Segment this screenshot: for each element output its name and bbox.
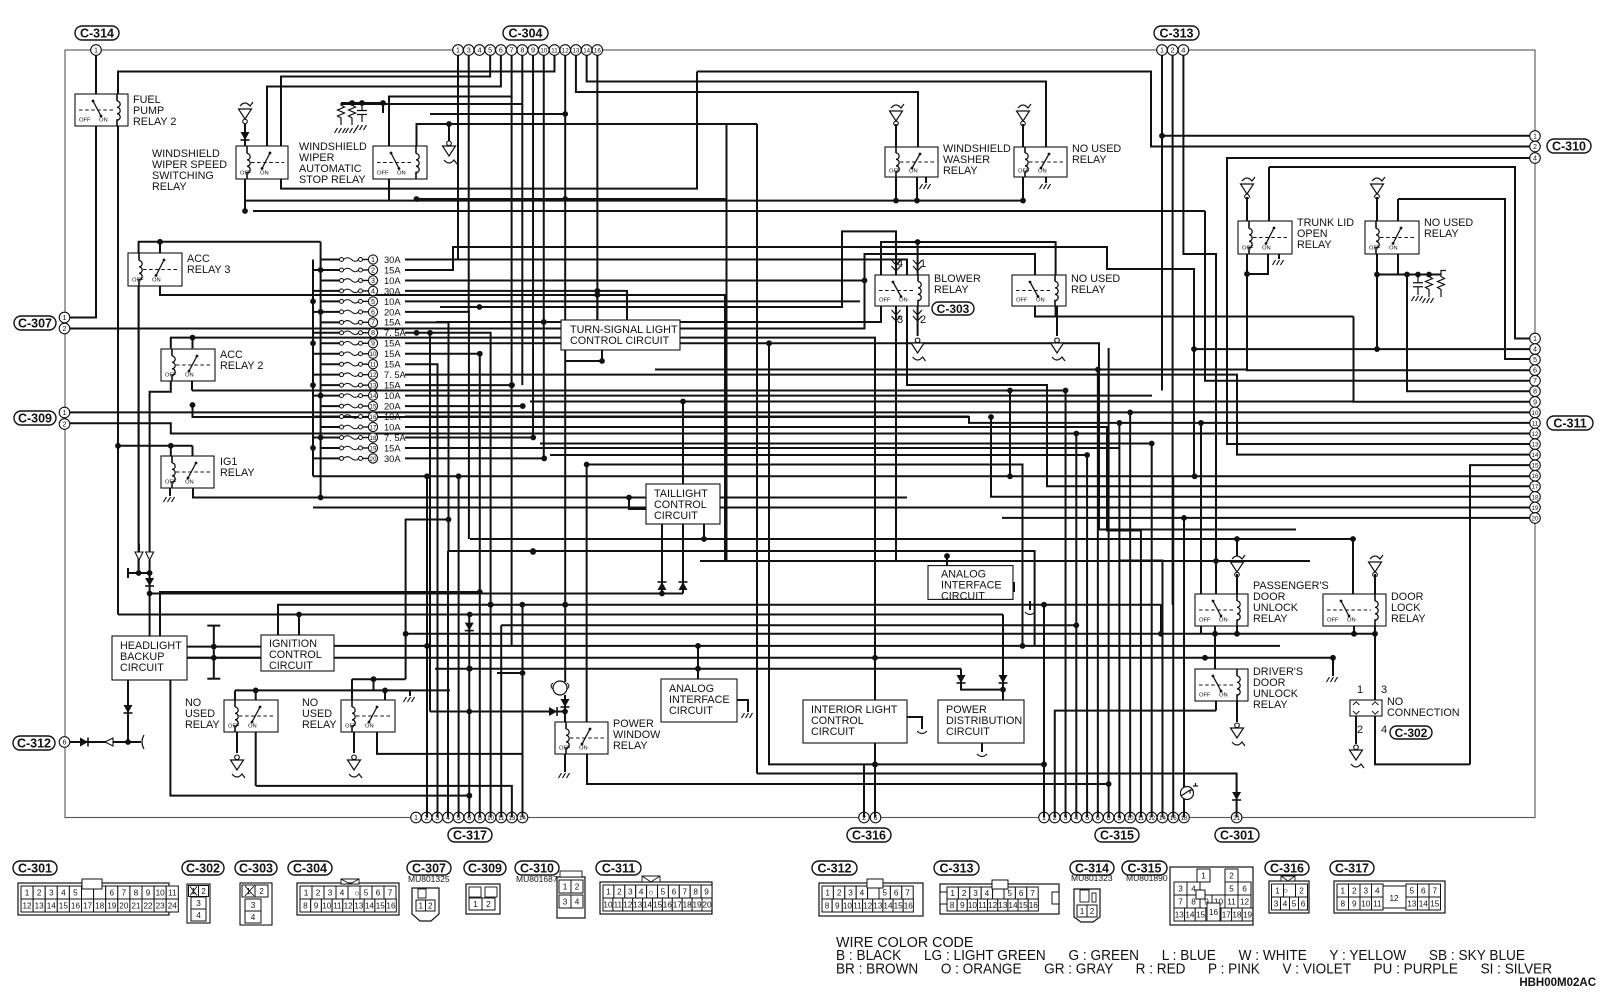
fuse bank 1-20 [340, 258, 344, 262]
svg-text:20A: 20A [384, 401, 401, 411]
wire C-311 pin13 link [1227, 443, 1530, 445]
relay ACC relay 3 [128, 253, 182, 286]
svg-text:C-310: C-310 [1552, 139, 1586, 153]
svg-text:3: 3 [467, 45, 471, 54]
fuse right joints [363, 259, 369, 261]
svg-text:2: 2 [486, 900, 491, 909]
svg-text:RELAY: RELAY [1072, 154, 1107, 166]
wire x430 from row8 [429, 333, 431, 712]
riser C-315 pin8 [1108, 348, 1110, 818]
wire x1194 down to rail [1193, 349, 1195, 476]
connector C-314 label [75, 26, 119, 40]
svg-text:C-302: C-302 [1395, 726, 1428, 740]
connector C-311 pins 1-20 [1530, 333, 1541, 344]
svg-text:13: 13 [1175, 910, 1185, 919]
svg-text:1: 1 [1201, 871, 1206, 880]
wire C-304 pin6 to wiper speed box [267, 55, 501, 146]
ground above washer relay [891, 104, 904, 108]
wire x769 vertical to y764 [769, 343, 1044, 764]
wire y540 bus [470, 538, 1353, 540]
svg-text:11: 11 [551, 47, 558, 54]
wire no-used2 switch bottom [377, 732, 523, 754]
svg-text:C-312: C-312 [817, 861, 851, 875]
riser C-317 pin13 [256, 786, 512, 818]
svg-text:RELAY: RELAY [613, 740, 648, 752]
connector C-314 pin 1 [91, 45, 102, 56]
svg-text:8: 8 [1340, 899, 1345, 908]
svg-text:2: 2 [617, 887, 622, 896]
svg-text:10A: 10A [384, 412, 401, 422]
svg-text:5: 5 [364, 888, 369, 897]
wire no-used mid switch down [1035, 306, 1354, 317]
svg-text:15: 15 [1019, 901, 1029, 910]
svg-text:6: 6 [371, 307, 375, 316]
svg-text:1: 1 [304, 888, 309, 897]
svg-text:15: 15 [59, 901, 69, 910]
fuse bottom rail to C-311 pin16 [313, 475, 1530, 477]
svg-text:9: 9 [704, 887, 709, 896]
bus y561 upper [700, 560, 1310, 562]
tri arrow x150 [146, 552, 154, 560]
svg-text:7: 7 [1432, 886, 1437, 895]
relay blower [875, 275, 929, 306]
fuse4 out [405, 291, 627, 320]
svg-text:3: 3 [1381, 684, 1387, 696]
wire stop relay coil top bus [417, 124, 758, 146]
wire power dist gnd [981, 743, 983, 752]
svg-text:5: 5 [73, 888, 78, 897]
svg-text:3: 3 [1178, 884, 1183, 893]
wire fuel relay coil down long [117, 126, 119, 615]
wire no-used2 aux stub [373, 679, 375, 690]
wire C-311 pin20 line [1002, 517, 1530, 519]
wire under wiper speed relay [281, 72, 697, 189]
svg-text:4: 4 [1375, 886, 1380, 895]
svg-text:19: 19 [107, 901, 117, 910]
connector C-313 pins 1 2 4 [1157, 45, 1168, 56]
svg-text:2: 2 [1299, 886, 1304, 895]
svg-text:8: 8 [520, 45, 524, 54]
svg-text:15A: 15A [384, 318, 401, 328]
wire acc3 switch top [159, 242, 161, 253]
svg-text:ON: ON [909, 169, 918, 175]
wire C-313 pin2 down [1172, 55, 1174, 604]
svg-text:14: 14 [643, 900, 653, 909]
pinout C-311 [596, 861, 641, 875]
svg-text:RELAY: RELAY [1253, 699, 1288, 711]
ground above no-used relay [1018, 104, 1031, 108]
svg-text:7: 7 [388, 888, 393, 897]
connector C-301 label [1215, 828, 1259, 842]
svg-text:6: 6 [1242, 884, 1247, 893]
svg-text:6: 6 [1019, 889, 1024, 898]
svg-text:C-304: C-304 [293, 861, 327, 875]
wire headlight bottom diode [127, 680, 129, 742]
svg-text:13: 13 [873, 901, 883, 910]
svg-text:2: 2 [428, 901, 433, 910]
fuse5 out [405, 300, 860, 302]
pinout C-301 [13, 861, 57, 875]
svg-text:16: 16 [594, 47, 601, 54]
svg-text:8: 8 [1533, 387, 1537, 396]
wire C-304 pin5 to wiper speed switch [281, 55, 490, 146]
riser C-315 pin2 [1055, 711, 1216, 818]
svg-text:1: 1 [418, 901, 423, 910]
svg-text:STOP RELAY: STOP RELAY [299, 174, 366, 186]
wire pass coil bottom [1236, 626, 1238, 634]
riser C-315 pin12 [1151, 444, 1153, 818]
svg-text:9: 9 [371, 339, 375, 348]
svg-text:C-315: C-315 [1100, 828, 1134, 842]
svg-text:4: 4 [196, 911, 201, 920]
wire power dist diodes [961, 669, 1003, 690]
wire C-311 pin15 line [1470, 465, 1530, 764]
svg-text:C-317: C-317 [1335, 861, 1369, 875]
svg-text:1: 1 [1533, 131, 1537, 140]
svg-text:C-301: C-301 [18, 861, 52, 875]
wire ig1 feeds top [118, 445, 193, 447]
svg-text:4: 4 [1283, 899, 1288, 908]
bus y604 long [278, 605, 1161, 636]
wire trunk relay feed [1268, 167, 1270, 221]
svg-text:RELAY: RELAY [185, 719, 220, 731]
wire pw coil gnd [564, 754, 566, 772]
svg-text:17: 17 [1222, 910, 1232, 919]
svg-text:4: 4 [1181, 45, 1185, 54]
svg-text:2: 2 [1352, 886, 1357, 895]
pinout C-310 [515, 861, 559, 875]
svg-text:19: 19 [1243, 910, 1253, 919]
wire x757 vertical to y774 [756, 124, 758, 774]
svg-text:ON: ON [579, 746, 588, 752]
wire y774 to C-301 pin21 [757, 774, 1237, 818]
svg-text:13: 13 [354, 901, 364, 910]
svg-text:2: 2 [63, 324, 67, 333]
svg-text:RELAY: RELAY [1297, 239, 1332, 251]
wire C-310 pin4 line [1227, 158, 1530, 444]
svg-text:16: 16 [1209, 908, 1219, 917]
relay windshield wiper speed switching [236, 146, 288, 179]
wire interior bottom [874, 743, 876, 764]
wire driver switch bottom [1215, 701, 1217, 711]
svg-text:11: 11 [168, 888, 177, 897]
wire turn-signal bottom tap [565, 350, 602, 361]
connector C-302 label [1390, 726, 1432, 739]
wire driver relay coil gnd [1236, 701, 1238, 722]
svg-text:CIRCUIT: CIRCUIT [669, 705, 713, 717]
connector C-304 label [503, 26, 548, 40]
svg-text:2: 2 [371, 265, 375, 274]
wire y114 stub [430, 113, 565, 115]
wire C-313 pin1 down [1161, 55, 1163, 390]
fuse18 out [405, 436, 533, 438]
svg-text:5: 5 [488, 45, 492, 54]
relay passenger door unlock [1195, 594, 1248, 626]
svg-text:8: 8 [134, 888, 139, 897]
ground above door lock coil [1370, 555, 1383, 559]
svg-text:11: 11 [370, 362, 377, 369]
fuse13 out [405, 384, 512, 386]
fuse12 out to C-311 pin14 [405, 375, 1530, 455]
svg-text:RELAY: RELAY [302, 719, 337, 731]
box headlight backup circuit [112, 636, 187, 680]
fuse8 out [405, 333, 491, 818]
svg-text:20: 20 [370, 456, 377, 463]
svg-text:13: 13 [998, 901, 1008, 910]
svg-text:ON: ON [1219, 693, 1228, 699]
connector C-310 pins 1 2 4 [1530, 131, 1541, 142]
svg-text:14: 14 [883, 901, 893, 910]
relay driver door unlock [1195, 669, 1248, 701]
wire x139 upper [138, 286, 140, 544]
connector C-301 pin 21 [1231, 812, 1242, 823]
svg-text:OFF: OFF [1016, 298, 1028, 304]
riser C-315 pin6 [1097, 370, 1099, 818]
svg-text:2: 2 [837, 888, 842, 897]
wire y199 to C-311 pin5 [1398, 199, 1530, 359]
svg-text:6: 6 [109, 888, 114, 897]
svg-text:RELAY: RELAY [1071, 284, 1106, 296]
pinout C-313 [934, 861, 979, 875]
svg-text:5: 5 [1292, 899, 1297, 908]
svg-text:2: 2 [575, 882, 580, 891]
svg-text:1: 1 [1275, 886, 1280, 895]
svg-text:20: 20 [1532, 515, 1539, 522]
pinout C-314 [1070, 861, 1114, 875]
wire x586 down to pw switch [586, 465, 588, 723]
svg-text:1: 1 [414, 813, 418, 822]
cap resistor group right [1413, 275, 1423, 296]
connector C-309 pins 1 2 [59, 407, 70, 418]
svg-text:10: 10 [1361, 899, 1371, 908]
wire C-304 pin11 to fuel relay coil [118, 55, 554, 94]
svg-text:10: 10 [370, 351, 377, 358]
svg-text:OFF: OFF [165, 480, 177, 486]
relay fuel pump relay 2 [75, 94, 128, 126]
svg-text:15: 15 [370, 403, 377, 410]
svg-text:11: 11 [1373, 899, 1382, 908]
svg-text:8: 8 [303, 901, 308, 910]
svg-text:1: 1 [456, 45, 460, 54]
wire x150 to headlight box [149, 594, 151, 636]
svg-text:MU801323: MU801323 [1071, 873, 1113, 883]
wire C-315 pin1 riser [1043, 605, 1045, 818]
svg-text:1: 1 [1080, 907, 1085, 916]
svg-text:OFF: OFF [1369, 246, 1381, 252]
bus y443 mid [540, 443, 1152, 445]
svg-text:C-313: C-313 [939, 861, 973, 875]
svg-text:C-316: C-316 [1270, 861, 1304, 875]
svg-text:10A: 10A [384, 391, 401, 401]
svg-text:15: 15 [376, 901, 386, 910]
svg-text:10A: 10A [384, 297, 401, 307]
svg-text:8: 8 [693, 887, 698, 896]
svg-text:C-316: C-316 [852, 828, 886, 842]
wire y673 left [497, 672, 523, 674]
wire pin12 C-304 down [564, 55, 566, 682]
pinout C-304 [288, 861, 332, 875]
svg-text:7. 5A: 7. 5A [384, 433, 407, 443]
wire blower pin4 feed stepA [440, 231, 896, 307]
svg-text:3: 3 [371, 276, 375, 285]
wire no-used1 coil stub [234, 690, 236, 700]
svg-text:19: 19 [692, 900, 702, 909]
wire pin8 C-304 down [521, 104, 523, 385]
wire blower pin3 down [895, 306, 897, 561]
wire no-used1 switch bottom [255, 732, 257, 786]
svg-text:16: 16 [370, 414, 377, 421]
wire acc pair arrows [138, 560, 140, 573]
wire y316 to C-311 pin9 [1354, 317, 1530, 402]
gnd hatch right of no-used2 [404, 697, 415, 702]
riser C-315 pin9 [1118, 423, 1120, 818]
riser C-317 pin4 [447, 551, 449, 818]
relay door lock [1323, 594, 1386, 626]
riser C-317 pin6 [468, 615, 470, 818]
svg-text:3: 3 [848, 888, 853, 897]
pinout C-302 [182, 861, 224, 875]
svg-text:17: 17 [1532, 484, 1539, 491]
ground above no-used right coil [1372, 177, 1385, 181]
svg-text:ON: ON [365, 724, 374, 730]
box interior light control circuit [803, 700, 907, 743]
fuse1 out to C-311 pin17 [405, 260, 1530, 487]
wire no-used feeds y679 [352, 678, 406, 680]
svg-text:12: 12 [988, 901, 998, 910]
svg-text:6: 6 [1301, 899, 1306, 908]
svg-text:2: 2 [316, 888, 321, 897]
svg-text:11: 11 [853, 901, 862, 910]
fuse20 out [405, 457, 544, 459]
svg-text:14: 14 [1419, 899, 1429, 908]
wire no-used2 gnd [353, 732, 355, 753]
svg-text:CONTROL CIRCUIT: CONTROL CIRCUIT [570, 335, 670, 347]
svg-text:4: 4 [575, 897, 580, 906]
svg-text:1: 1 [371, 255, 375, 264]
svg-text:8: 8 [950, 901, 955, 910]
svg-text:11: 11 [614, 900, 623, 909]
svg-text:2: 2 [1090, 907, 1095, 916]
svg-text:18: 18 [95, 901, 105, 910]
wire no-used1 gnd [236, 732, 238, 753]
svg-text:18: 18 [1532, 494, 1539, 501]
wire y71 bus to C-310 pin2 [697, 72, 1530, 147]
riser C-315 pin16 [1172, 476, 1174, 818]
svg-text:CIRCUIT: CIRCUIT [120, 662, 164, 674]
relay no used top [1014, 147, 1067, 177]
box ignition control circuit [261, 635, 334, 671]
connector C-316 label [847, 828, 891, 842]
svg-text:10A: 10A [384, 276, 401, 286]
wire blower pin1 feed stepB [436, 242, 1056, 322]
svg-text:4: 4 [1381, 724, 1387, 736]
svg-text:9: 9 [835, 901, 840, 910]
svg-text:4: 4 [860, 888, 865, 897]
pinout C-316 [1265, 861, 1309, 875]
wire left stub y211 [244, 201, 246, 211]
wire y211 to C-311 pin7 [1205, 211, 1530, 381]
svg-text:15A: 15A [384, 381, 401, 391]
relay ACC relay 2 [161, 349, 215, 381]
svg-text:20: 20 [702, 900, 712, 909]
svg-text:14: 14 [583, 47, 590, 54]
wire x1161 to bus636 [1160, 605, 1162, 634]
svg-text:4: 4 [340, 888, 345, 897]
svg-text:3: 3 [628, 887, 633, 896]
svg-text:C-314: C-314 [80, 26, 114, 40]
wire pin16 C-304 down [596, 55, 598, 320]
svg-text:15A: 15A [384, 349, 401, 359]
wire pin13 C-304 to washer switch [576, 55, 918, 152]
wire no-used right feed [1397, 199, 1399, 221]
svg-text:13: 13 [572, 47, 579, 54]
bus y625 [501, 624, 1076, 626]
svg-text:3: 3 [328, 888, 333, 897]
svg-text:17: 17 [83, 901, 93, 910]
svg-text:7: 7 [1178, 897, 1183, 906]
connector C-310 label [1547, 139, 1591, 153]
svg-text:4: 4 [1533, 344, 1537, 353]
wire acc3 top bus [139, 242, 321, 253]
wire wiper speed coil to bus200 [244, 179, 246, 201]
connector C-307 label [14, 316, 56, 330]
fuse9 out [405, 343, 1296, 529]
svg-text:○: ○ [1283, 886, 1288, 895]
wire no-used feeds y690 [235, 689, 450, 691]
connector C-317 pins on border [411, 812, 422, 823]
wire C302 pin4 to C-311 pin15 [1375, 716, 1470, 764]
connector C-312 pin 6 [59, 737, 70, 748]
svg-text:9: 9 [531, 45, 535, 54]
valve symbol on pin18 riser [1181, 787, 1194, 800]
svg-text:1: 1 [920, 258, 926, 270]
svg-text:RELAY 2: RELAY 2 [133, 116, 176, 128]
wire y668 line [435, 668, 961, 670]
svg-text:C-309: C-309 [18, 411, 52, 425]
svg-text:1: 1 [63, 313, 67, 322]
svg-text:HBH00M02AC: HBH00M02AC [1519, 977, 1596, 989]
wire door lock bottoms [1353, 626, 1355, 634]
svg-text:OFF: OFF [1199, 693, 1211, 699]
svg-text:1: 1 [94, 45, 98, 54]
svg-text:20A: 20A [384, 307, 401, 317]
relay IG1 [161, 456, 214, 488]
connector C-304 pins 1-16 [453, 45, 464, 56]
svg-text:C-309: C-309 [468, 861, 502, 875]
wire y711 from left [430, 711, 565, 713]
relay power window [555, 722, 608, 754]
svg-text:14: 14 [1008, 901, 1018, 910]
svg-text:12: 12 [370, 372, 377, 379]
pinout C-315 [1122, 861, 1167, 875]
svg-text:ON: ON [1389, 246, 1398, 252]
svg-text:7: 7 [371, 318, 375, 327]
riser C-315 pin4 [1075, 434, 1077, 818]
svg-text:○: ○ [649, 888, 654, 897]
svg-text:ON: ON [185, 480, 194, 486]
connector C-313 label [1154, 26, 1199, 40]
wire ig1 coil gnd [169, 488, 171, 496]
svg-text:9: 9 [1533, 397, 1537, 406]
ground above wiper speed relay [240, 102, 253, 106]
svg-text:4: 4 [61, 888, 66, 897]
svg-text:ON: ON [185, 373, 194, 379]
svg-text:OFF: OFF [879, 298, 891, 304]
svg-text:5: 5 [1229, 884, 1234, 893]
wire x1010 riser [1009, 391, 1011, 477]
ground above trunk coil [1242, 177, 1255, 181]
svg-text:15: 15 [653, 900, 663, 909]
